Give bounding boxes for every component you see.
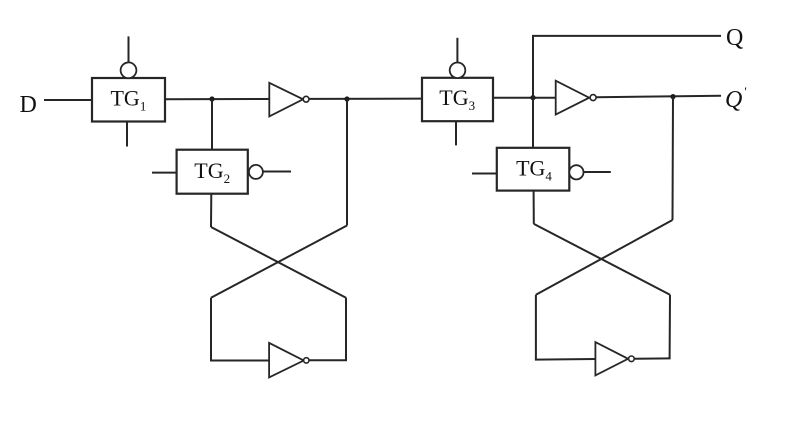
- node junction dot A: [209, 96, 214, 101]
- svg-text:D: D: [20, 92, 37, 118]
- bubble on TG1 clock input: [121, 62, 137, 78]
- wire right loop vertical: [345, 298, 347, 361]
- wire D input: [44, 99, 93, 101]
- wire junction C up and across to Q: [533, 36, 721, 148]
- node junction dot C: [530, 95, 535, 100]
- node junction dot E: [670, 94, 675, 99]
- inverter U3: [556, 81, 596, 115]
- wire TG2 right stub: [263, 171, 291, 173]
- svg-text:Q: Q: [726, 25, 743, 51]
- transmission gate TG4: [497, 148, 570, 191]
- wire TG2 left stub: [152, 172, 177, 174]
- wire junction E down to cross bend: [672, 97, 675, 220]
- bubble on TG4 right control: [569, 165, 583, 179]
- svg-text:Q': Q': [725, 84, 746, 113]
- wire clock stub below TG3: [455, 121, 457, 145]
- wire TG4 bottom to cross bend: [533, 191, 535, 224]
- transmission gate TG1: [92, 78, 165, 122]
- bubble on TG2 right control: [249, 165, 263, 179]
- wire TG3 output to inverter U3: [493, 97, 556, 99]
- wire U4 output to right loop vertical: [634, 357, 670, 359]
- wire U2 output to right loop vertical: [309, 359, 347, 361]
- bubble on TG3 clock input: [450, 63, 466, 79]
- wire feedback bottom right cell: [535, 358, 596, 361]
- wire right loop vertical right cell: [669, 295, 671, 359]
- wire junction A down to TG2: [211, 99, 213, 150]
- transmission gate TG2: [177, 150, 248, 194]
- inverter U4 feedback: [595, 342, 634, 375]
- wire TG2 bottom to cross bend: [210, 194, 212, 227]
- wire clock stub above TG3: [456, 38, 458, 63]
- wire U3 output to Q': [596, 96, 721, 97]
- wire left loop vertical: [210, 298, 212, 361]
- wire cross diagonal left-to-right right cell: [534, 224, 670, 295]
- wire TG4 left stub: [472, 173, 497, 175]
- wire TG4 right stub: [584, 171, 611, 173]
- wire cross diagonal left-to-right: [211, 227, 346, 298]
- wire left loop vertical right cell: [535, 295, 537, 360]
- wire cross diagonal right-to-left: [211, 226, 347, 298]
- wire cross diagonal right-to-left right cell: [536, 220, 673, 295]
- wire clock stub below TG1: [126, 122, 128, 147]
- wire junction B down to cross bend: [346, 99, 348, 226]
- node junction dot B: [344, 96, 349, 101]
- inverter U1: [269, 83, 309, 117]
- wire TG1 output to TG3 input: [165, 98, 422, 101]
- inverter U2 feedback: [269, 343, 309, 378]
- wire clock stub above TG1: [128, 36, 130, 62]
- transmission gate TG3: [422, 78, 493, 121]
- wire feedback bottom left: [210, 360, 270, 362]
